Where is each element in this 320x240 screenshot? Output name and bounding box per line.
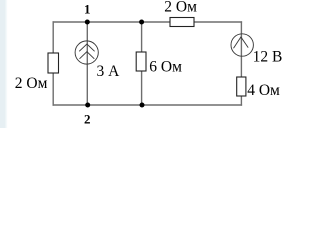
wire right branch bbox=[240, 21, 242, 77]
wire right branch lower bbox=[240, 96, 242, 106]
resistor R4 4 Ом (right) bbox=[237, 77, 246, 96]
wire top right segment bbox=[194, 21, 242, 23]
svg-text:4 Ом: 4 Ом bbox=[247, 82, 280, 99]
wire middle branch lower bbox=[141, 71, 143, 105]
node junction dot (top, middle branch) bbox=[139, 20, 144, 25]
current source J1 3 А bbox=[75, 41, 98, 64]
svg-text:2 Ом: 2 Ом bbox=[15, 75, 48, 92]
wire left branch upper bbox=[52, 21, 54, 53]
resistor R1 2 Ом (left) bbox=[48, 53, 59, 73]
svg-text:2 Ом: 2 Ом bbox=[164, 0, 197, 15]
resistor R3 6 Ом (middle) bbox=[136, 52, 146, 71]
wire top left segment bbox=[53, 21, 171, 23]
wire left branch lower bbox=[52, 73, 54, 106]
wire middle branch upper bbox=[141, 22, 143, 52]
node 1 junction dot (top, current source branch) bbox=[85, 20, 90, 25]
wire current-source branch bbox=[86, 22, 88, 105]
wire bottom bbox=[53, 104, 243, 106]
resistor R2 2 Ом (top) bbox=[170, 18, 194, 27]
node 2 junction dot (bottom, current source branch) bbox=[85, 103, 90, 108]
node junction dot (bottom, middle branch) bbox=[140, 103, 145, 108]
svg-text:3 А: 3 А bbox=[97, 63, 121, 80]
svg-text:1: 1 bbox=[84, 1, 91, 16]
svg-text:2: 2 bbox=[84, 111, 91, 126]
EMF source E1 12 В bbox=[231, 34, 253, 56]
svg-text:6 Ом: 6 Ом bbox=[149, 59, 182, 76]
svg-text:12 В: 12 В bbox=[253, 48, 283, 65]
